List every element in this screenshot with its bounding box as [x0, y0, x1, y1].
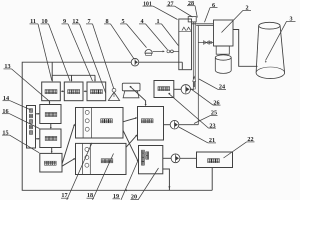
hopper feeder device [122, 83, 140, 91]
wire temp-pool to pump A [174, 88, 181, 90]
junction dot in temperature pool [168, 93, 170, 95]
wire arrow tank2->tank1 [62, 90, 65, 92]
wire hopper to circulation pool with down arrow [131, 87, 146, 105]
valve 6 line to box 2 [198, 42, 213, 44]
pump D (main feed pump on top pipe) [131, 58, 139, 66]
tank jiayang-2 (aeration pool 2) [64, 82, 83, 101]
oxidation blower 5 [145, 49, 152, 53]
chimney (tapered stack) [259, 22, 280, 29]
wire settling1 to gypsum tank arrow [123, 130, 138, 160]
flue duct double line tower to box2 [192, 23, 214, 25]
dewatering machine box [197, 152, 233, 168]
tank zhihuan-2 (replacement pool 2) [40, 129, 61, 148]
tank chendian-1 (settling pool 1) [76, 108, 124, 139]
wire aeration1 down to replacement1 [49, 101, 51, 104]
pump B (circulation pump) [170, 120, 179, 129]
tank zhihuan-3 (replacement pool 3) [40, 153, 62, 172]
wire settling2 to circulation arrow [126, 135, 137, 147]
nozzle double circles 4 [167, 50, 170, 53]
wire circulation pool to pump B [164, 124, 171, 126]
lime slaker (vertical box) [27, 106, 36, 149]
valve 6 symbol [204, 41, 207, 45]
wire replacement2 down to replacement3 [51, 148, 53, 153]
wire gypsum tank overflow to return line [163, 169, 170, 190]
wire slaker to pool1 arrow [36, 113, 39, 115]
wire slaker to pool2 arrow [36, 138, 39, 140]
sub box under box2 [216, 46, 229, 54]
riser up-flow arrow [193, 81, 195, 87]
tank xunhuan (circulation pool) [138, 107, 164, 141]
riser pipe (double line) from pump A to tower top [192, 22, 194, 89]
spray nozzles inside tower [182, 27, 186, 30]
wire blower to nozzle arrow [153, 50, 164, 52]
wire nozzle to tower [173, 50, 179, 52]
agitator (cone with circle) [112, 88, 116, 92]
absorber tower body [179, 19, 192, 70]
wire drop into tank 1 [51, 75, 53, 80]
drum tank under box2 [215, 58, 231, 74]
tank gypsum slurry pool [139, 146, 163, 174]
wire pump C to dewaterer [180, 157, 197, 159]
wire pump B outlet to vertical pipe [179, 124, 199, 126]
wire box2 to chimney [233, 30, 258, 67]
tank zhihuan-1 (replacement pool 1) [40, 105, 61, 124]
wire arrow tank3->tank2 [84, 90, 87, 92]
wire replacement3 to settling1 diagonal [62, 125, 74, 164]
wire main water loop (left/bottom/top pipe) [22, 62, 212, 190]
pump C (gypsum slurry pump) [171, 154, 180, 163]
svg-text:20: 20 [131, 194, 137, 200]
wire drop into tank 2 [71, 75, 73, 80]
pump A (tower recirculation pump) [181, 85, 190, 94]
tank jiayang-3 (aeration pool 3) [87, 82, 106, 101]
wire manifold from top pipe to aeration tanks [52, 62, 95, 75]
wire drop into tank 3 [94, 75, 96, 80]
wire settling1 to circulation arrow [123, 118, 136, 122]
wire dewaterer drain down to return line [211, 168, 213, 191]
tank jiayang-1 (aeration pool 1) [42, 82, 61, 101]
vertical pipe from duct down to pump B line [197, 26, 199, 125]
wire feed drop into tower [181, 62, 183, 69]
wire gypsum pool to pump C [163, 157, 171, 159]
wire overflow down arrow [168, 186, 170, 188]
tank tiaowen (temperature pool) [154, 81, 174, 98]
tank chendian-2 (settling pool 2) [76, 143, 127, 174]
box 2 (heat exchanger unit) [214, 20, 234, 46]
wire pump A to riser [191, 88, 195, 90]
wire flow arrow left on bottom return line [125, 189, 127, 191]
tower top connection box [188, 17, 196, 22]
wire replacement3 to settling2 diagonal [62, 159, 75, 167]
wire replacement1 down to replacement2 [50, 124, 52, 129]
